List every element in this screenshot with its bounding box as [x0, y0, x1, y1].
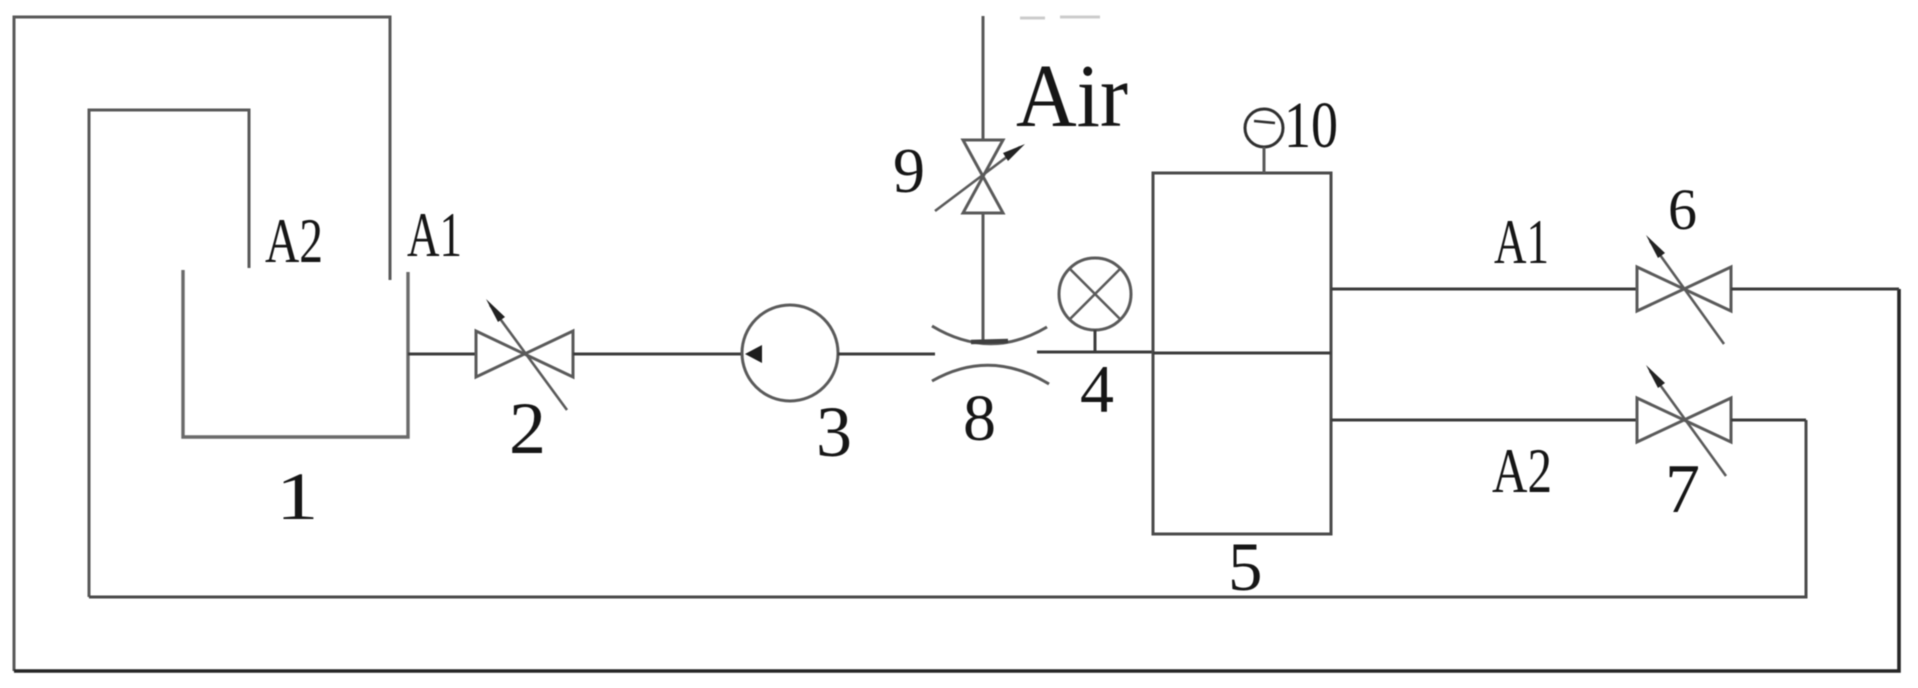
- valve 6 (bowtie): [1637, 267, 1731, 311]
- venturi 8 lower arc: [932, 365, 1049, 384]
- svg-text:4: 4: [1080, 351, 1114, 427]
- svg-text:8: 8: [963, 382, 996, 455]
- valve 2 adjustment diagonal with arrow: [490, 305, 567, 410]
- svg-text:A2: A2: [1492, 435, 1552, 506]
- wire: valve 6 to right riser: [1731, 288, 1899, 291]
- node: junction foot on venturi throat: [971, 341, 1008, 342]
- gauge 10 (circle with chord): [1245, 109, 1283, 147]
- svg-text:A2: A2: [265, 205, 323, 276]
- venturi 8 upper arc: [932, 326, 1047, 344]
- svg-text:A1: A1: [1494, 206, 1549, 277]
- svg-text:10: 10: [1284, 89, 1338, 162]
- gauge 4 (circle with X): [1059, 258, 1131, 330]
- pump 3 (circle): [742, 305, 838, 401]
- valve 9 (vertical bowtie): [963, 140, 1003, 213]
- svg-text:6: 6: [1668, 177, 1697, 242]
- svg-text:A1: A1: [407, 199, 462, 270]
- wire: venturi 8 to tank 5: [1037, 351, 1153, 354]
- wire: gauge 4 stem: [1094, 330, 1097, 352]
- wire: divider line through tank 5: [1153, 352, 1331, 355]
- wire: gauge 10 stem: [1263, 147, 1266, 173]
- wire: air inlet vertical line: [982, 16, 985, 140]
- valve 6 adjustment diagonal with arrow: [1650, 241, 1724, 344]
- wire: outer A1 return loop (tank top, left side, bottom, right riser): [14, 17, 390, 671]
- wire: valve 9 to venturi throat: [982, 213, 985, 342]
- svg-text:3: 3: [816, 392, 852, 472]
- wire: tank outlet to valve 2: [408, 353, 476, 356]
- wire: outer loop bottom run: [14, 289, 1899, 671]
- svg-text:Air: Air: [1016, 47, 1128, 146]
- valve 9 adjustment diagonal with arrow: [935, 147, 1020, 211]
- wire: inner A2 return loop (pipe into tank, top, left side): [89, 110, 249, 597]
- pump 3 inlet arrowhead: [745, 345, 762, 363]
- wire: A2 line tank5 to valve 7: [1331, 419, 1637, 422]
- svg-text:9: 9: [893, 135, 925, 206]
- svg-text:5: 5: [1228, 529, 1263, 605]
- tank 5 (separator vessel): [1153, 173, 1331, 534]
- svg-text:7: 7: [1665, 451, 1700, 528]
- wire: valve 7 to A2 riser: [1731, 419, 1806, 422]
- tank 1 (open-top vessel): [183, 270, 408, 437]
- decorative faint crop artifacts at top: [1020, 17, 1100, 18]
- svg-text:2: 2: [509, 388, 546, 470]
- valve 2 (bowtie): [476, 331, 573, 377]
- wire: A1 line tank5 to valve 6: [1331, 288, 1637, 291]
- valve 7 adjustment diagonal with arrow: [1650, 371, 1726, 476]
- svg-text:1: 1: [276, 458, 318, 534]
- wire: pump 3 to venturi 8: [838, 353, 935, 356]
- wire: A2 loop bottom run: [89, 420, 1806, 597]
- valve 7 (bowtie): [1637, 398, 1731, 442]
- wire: valve 2 to pump 3: [573, 353, 742, 356]
